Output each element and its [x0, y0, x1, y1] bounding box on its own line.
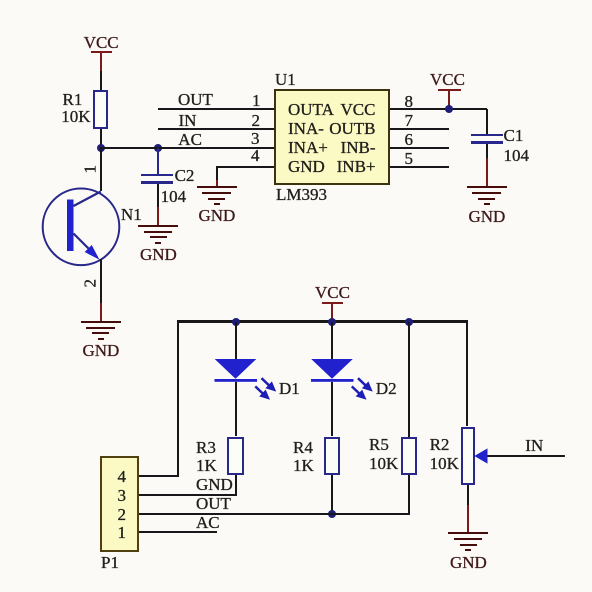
node AC junction at C2 — [154, 144, 162, 152]
P1 pin number 3 — [118, 487, 127, 504]
P1 pin number 4 — [118, 468, 127, 485]
node rail-R5 — [405, 318, 413, 326]
U1 pin name INA- — [288, 120, 324, 137]
wire R4 to OUT net — [331, 475, 333, 516]
connector P1 body — [100, 456, 139, 552]
wire D1 to R3 — [235, 382, 237, 437]
node rail-D1 — [232, 318, 240, 326]
U1 pin name VCC — [341, 101, 376, 118]
capacitor C1 — [471, 134, 503, 137]
U1 pin name INB- — [341, 139, 376, 156]
pin number 4 of U1 — [251, 147, 260, 164]
wire net AC horizontal to pin 3 — [100, 147, 274, 149]
P1 pin number 2 — [118, 506, 127, 523]
wire rail to D2 — [331, 322, 333, 360]
wire pin 4 to ground — [217, 166, 275, 168]
ground symbol under N1 — [81, 321, 121, 323]
U1 pin name INB+ — [337, 158, 376, 175]
net label GND — [196, 476, 233, 493]
wire net IN to pin 2 — [158, 128, 275, 130]
wire VCC rail — [178, 320, 468, 322]
P1 pin number 1 — [118, 524, 127, 541]
pin number 7 — [405, 112, 414, 129]
wire P1 pin 1 (AC) — [139, 531, 217, 533]
node R4-OUT junction — [328, 510, 336, 518]
pin number 3 of U1 — [251, 130, 260, 147]
resistor R5 — [401, 437, 418, 475]
pin number 2 of U1 — [252, 112, 261, 129]
wire rail right drop to R2 — [466, 320, 468, 426]
wire pin 5 — [390, 166, 449, 168]
pin number 1 of N1 (rotated) — [81, 165, 98, 173]
wire pin 8 to VCC and C1 — [390, 108, 487, 110]
pin number 6 — [405, 131, 414, 148]
power VCC symbol bottom — [315, 284, 350, 301]
net label IN — [179, 112, 197, 129]
wire C2 to ground — [157, 184, 159, 208]
ground symbol under pin 4 — [197, 186, 237, 188]
wire collector — [100, 148, 102, 192]
wire R3 to P1 pin3 — [235, 475, 237, 497]
wire R5 to OUT net — [408, 475, 410, 516]
wire rail to D1 — [235, 322, 237, 360]
node collector junction — [97, 144, 105, 152]
wire R1 to node — [100, 129, 102, 149]
U1 pin name INA+ — [288, 139, 328, 156]
op-amp U1 LM393 body — [274, 89, 390, 185]
resistor R3 — [227, 437, 244, 475]
node VCC pin8 junction — [445, 105, 453, 113]
pin number 1 of U1 — [252, 92, 261, 109]
resistor R4 — [324, 437, 341, 475]
wire net OUT bottom — [139, 513, 410, 515]
U1 pin name OUTA — [288, 101, 334, 118]
resistor R1 — [93, 90, 109, 129]
wire down to C1 — [486, 109, 488, 134]
net label AC — [178, 131, 202, 148]
wire pin 6 — [390, 147, 449, 149]
wire net OUT to pin 1 — [158, 108, 275, 110]
wire emitter to ground — [100, 259, 102, 303]
power VCC symbol right — [430, 71, 465, 88]
net label IN — [525, 437, 543, 454]
ground symbol under C2 — [138, 225, 178, 227]
ground symbol under C1 — [467, 186, 507, 188]
pin number 2 of N1 (rotated) — [82, 280, 99, 288]
wire rail to R5 — [408, 322, 410, 437]
wire rail left drop to P1 pin4 — [177, 320, 179, 477]
node rail-VCC-D2 — [328, 318, 336, 326]
U1 pin name OUTB — [329, 120, 375, 137]
ground symbol under R2 — [448, 532, 488, 534]
power VCC symbol top-left — [84, 34, 119, 51]
U1 pin name GND — [288, 158, 325, 175]
wire P1 pin 4 — [139, 475, 179, 477]
pin number 8 — [405, 93, 414, 110]
wire R2 to ground — [467, 485, 469, 506]
wire pin 7 — [390, 128, 449, 130]
net label AC — [196, 514, 220, 531]
capacitor C2 — [157, 148, 159, 174]
wire VCC to R1 — [100, 71, 102, 90]
potentiometer R2 — [461, 427, 475, 485]
pin number 5 — [405, 150, 414, 167]
net label OUT — [178, 91, 213, 108]
wire C1 to ground — [486, 144, 488, 158]
net label OUT — [196, 495, 231, 512]
wire D2 to R4 — [331, 382, 333, 437]
